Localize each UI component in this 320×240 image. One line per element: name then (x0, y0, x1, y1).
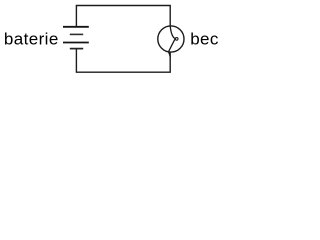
svg-text:bec: bec (190, 30, 219, 49)
svg-text:baterie: baterie (4, 30, 59, 49)
